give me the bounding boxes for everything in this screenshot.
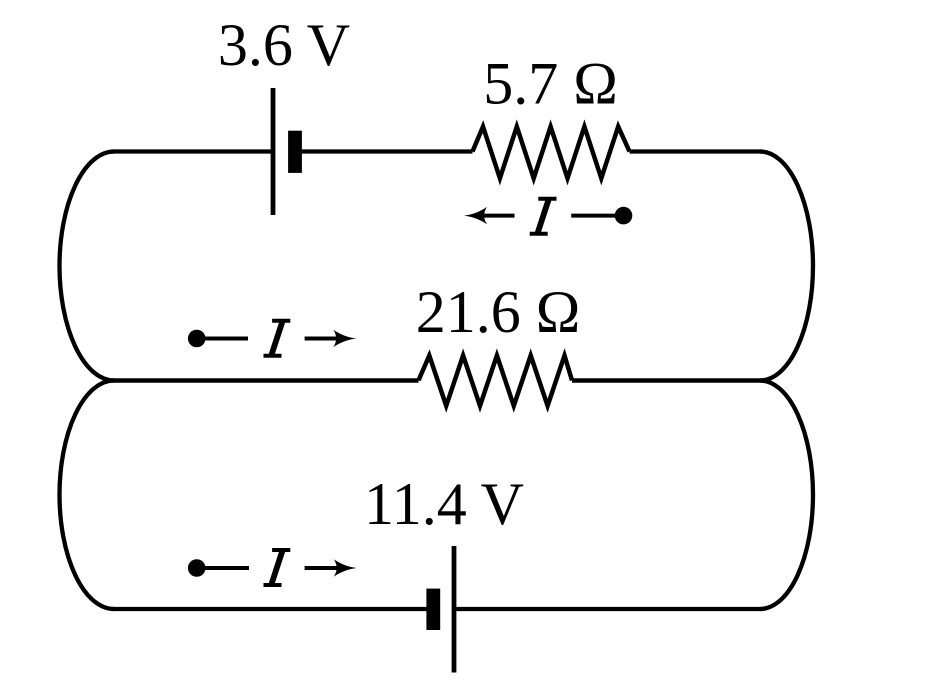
resistor R2 21.6 ohm zigzag <box>419 356 573 406</box>
svg-text:3.6 V: 3.6 V <box>218 12 350 78</box>
wire: top loop right cap <box>760 152 813 381</box>
battery B2 (11.4 V): short thick plate <box>426 589 440 630</box>
battery B1 (3.6 V): short thick plate <box>288 131 302 173</box>
current arrow (middle wire): right arrowhead <box>333 330 356 347</box>
current symbol I (middle wire) <box>264 319 291 358</box>
wire: top loop left cap <box>59 152 114 381</box>
wire: bottom wire right segment <box>455 607 763 611</box>
current arrow (bottom loop): arrow shaft <box>305 566 340 570</box>
svg-text:11.4 V: 11.4 V <box>364 471 524 537</box>
current arrow (middle wire): arrow shaft <box>305 337 340 341</box>
wire: bottom loop right cap <box>760 381 813 610</box>
current arrow (bottom loop): node dot <box>188 559 206 577</box>
svg-text:21.6 Ω: 21.6 Ω <box>416 279 581 345</box>
current symbol I (bottom loop) <box>264 548 291 587</box>
wire: bottom loop left cap <box>59 381 114 610</box>
wire: top wire left segment <box>112 149 272 153</box>
svg-text:5.7 Ω: 5.7 Ω <box>483 51 618 117</box>
current symbol I (top loop) <box>530 197 557 236</box>
wire: top wire middle segment <box>301 149 473 153</box>
current arrow (middle wire): node dot <box>188 330 206 348</box>
current arrow (top loop): tail line <box>571 214 620 218</box>
current arrow (top loop): left arrowhead <box>464 207 487 224</box>
battery B1 (3.6 V): long thin plate <box>271 88 276 215</box>
wire: top wire right segment <box>630 149 763 153</box>
current arrow (middle wire): tail line <box>197 337 248 341</box>
resistor R1 5.7 ohm zigzag <box>473 127 630 179</box>
current arrow (bottom loop): right arrowhead <box>334 559 357 576</box>
wire: middle wire right segment <box>572 378 762 383</box>
current arrow (bottom loop): tail line <box>197 566 249 570</box>
battery B2 (11.4 V): long thin plate <box>452 546 457 673</box>
current arrow (top loop): node dot <box>615 207 633 225</box>
wire: bottom wire left segment <box>112 607 428 611</box>
current arrow (top loop): arrow shaft <box>483 214 515 218</box>
wire: middle wire left segment <box>112 378 419 383</box>
